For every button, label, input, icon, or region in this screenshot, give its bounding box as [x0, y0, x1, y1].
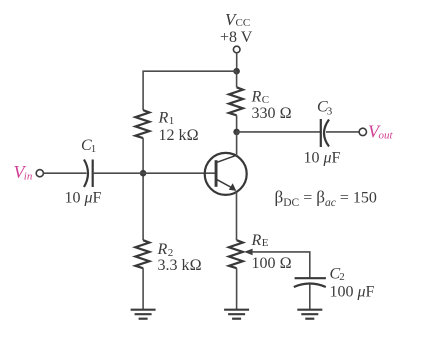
node base junction	[140, 170, 147, 177]
wire VCC terminal to junction	[236, 53, 238, 70]
wire collector node to C3	[237, 131, 320, 133]
svg-text:12 kΩ: 12 kΩ	[159, 127, 199, 144]
wire top rail to R1	[143, 71, 237, 110]
transistor Q1	[205, 153, 247, 195]
resistor R2	[135, 240, 149, 268]
svg-text:R: R	[158, 110, 169, 127]
ground (R2)	[131, 310, 156, 319]
svg-text:100 μF: 100 μF	[330, 284, 375, 301]
svg-text:C: C	[262, 94, 269, 106]
svg-text:CC: CC	[236, 17, 251, 29]
capacitor C1	[65, 137, 102, 206]
wire RE bottom to ground	[236, 268, 238, 309]
svg-text:10 μF: 10 μF	[65, 189, 102, 206]
wire R2 bottom to ground	[142, 268, 144, 309]
svg-text:out: out	[379, 130, 394, 142]
capacitor C3	[304, 99, 341, 167]
tap arrow into RE	[244, 249, 253, 256]
resistor RE	[229, 240, 243, 268]
ground (RE)	[224, 310, 249, 319]
svg-text:in: in	[24, 171, 33, 183]
wire emitter to RE	[236, 192, 238, 240]
svg-text:R: R	[251, 232, 262, 249]
svg-text:10 μF: 10 μF	[304, 149, 341, 166]
node VCC junction	[233, 68, 240, 75]
svg-text:2: 2	[339, 271, 345, 283]
wire C2 to ground	[309, 285, 311, 310]
node VCC label	[220, 10, 253, 46]
svg-text:3: 3	[327, 106, 333, 118]
wire Vin to C1	[44, 172, 87, 174]
wire RC bottom to collector node	[236, 115, 238, 132]
node collector junction	[233, 129, 240, 136]
wire tap to C2	[252, 252, 310, 278]
wire R1 bottom to R2 top (through base node)	[142, 138, 144, 240]
svg-text:1: 1	[169, 115, 175, 127]
svg-text:E: E	[262, 237, 269, 249]
resistor R1	[135, 110, 149, 138]
svg-text:βDC = βac = 150: βDC = βac = 150	[275, 188, 377, 210]
capacitor C2	[294, 266, 375, 301]
wire C1 to base	[93, 172, 215, 174]
svg-text:100 Ω: 100 Ω	[252, 255, 292, 272]
svg-text:+8 V: +8 V	[220, 29, 253, 46]
wire VCC junction to RC	[236, 71, 238, 87]
svg-text:3.3 kΩ: 3.3 kΩ	[158, 257, 202, 274]
VCC terminal	[233, 46, 240, 53]
svg-text:R: R	[157, 241, 168, 258]
wire C3 to Vout terminal	[326, 131, 359, 133]
wire collector vertical	[236, 132, 238, 156]
ground (C2)	[297, 310, 322, 319]
svg-text:1: 1	[91, 143, 97, 155]
svg-text:330 Ω: 330 Ω	[252, 105, 292, 122]
svg-text:R: R	[251, 89, 262, 106]
node Vin terminal	[14, 162, 33, 183]
resistor RC	[229, 87, 243, 115]
node Vout terminal	[359, 128, 366, 135]
